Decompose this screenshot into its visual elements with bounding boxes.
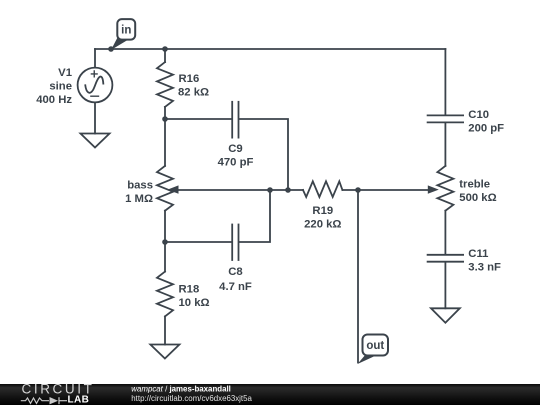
ground (C11) [431, 308, 460, 322]
node C8 riser [267, 187, 273, 193]
ground (V1) [81, 134, 110, 148]
svg-text:R19: R19 [312, 205, 333, 217]
svg-text:R18: R18 [179, 284, 200, 296]
wire bass bottom lead [164, 211, 166, 242]
wire C8 right corner up [239, 190, 270, 242]
wire R16 bottom lead [164, 107, 166, 119]
svg-text:wampcat / james-baxandall: wampcat / james-baxandall [131, 385, 231, 394]
CircuitLab logo zigzag and diode [21, 397, 67, 404]
CircuitLab logo diode triangle [50, 397, 59, 404]
node bass bottom / C8 [162, 239, 168, 245]
voltage source V1 [78, 68, 113, 103]
wire C11 to ground [444, 263, 446, 309]
node in tag junction [108, 46, 114, 52]
svg-text:200 pF: 200 pF [468, 123, 504, 135]
wire R18 top lead [164, 242, 166, 272]
wire C10 to treble [444, 123, 446, 165]
wire top right down to C10 [444, 49, 446, 114]
wire R16 top lead [164, 49, 166, 62]
svg-text:out: out [366, 340, 384, 352]
svg-text:400 Hz: 400 Hz [36, 94, 72, 106]
svg-text:R16: R16 [179, 73, 200, 85]
svg-text:10 kΩ: 10 kΩ [179, 297, 210, 309]
wire node to C9 left [165, 118, 231, 120]
node C9 riser [285, 187, 291, 193]
in flag tail [111, 38, 129, 51]
wire bass wiper to R19 [178, 189, 304, 191]
wire V1 bottom lead [94, 102, 96, 133]
treble wiper arrow [428, 185, 439, 193]
potentiometer treble [437, 166, 453, 211]
svg-text:500 kΩ: 500 kΩ [459, 192, 496, 204]
svg-text:http://circuitlab.com/cv6dxe63: http://circuitlab.com/cv6dxe63xjt5a [131, 394, 252, 403]
wire C9 right to corner down [239, 119, 288, 190]
wire R19 right to treble arrow [342, 189, 428, 191]
resistor R19 [303, 181, 342, 197]
wire node to C8 left [165, 241, 231, 243]
svg-text:82 kΩ: 82 kΩ [178, 87, 209, 99]
node R16 top [162, 46, 168, 52]
svg-text:LAB: LAB [68, 394, 90, 405]
capacitor C8 [232, 225, 238, 261]
wire R18 bottom lead [164, 316, 166, 344]
svg-text:470 pF: 470 pF [218, 157, 254, 169]
svg-text:220 kΩ: 220 kΩ [304, 219, 341, 231]
wire V1 top lead [94, 49, 96, 68]
capacitor C9 [232, 102, 238, 138]
svg-text:bass: bass [127, 179, 153, 191]
svg-text:in: in [121, 25, 131, 37]
potentiometer bass [157, 166, 173, 211]
ground (R18) [150, 345, 179, 359]
svg-text:3.3 nF: 3.3 nF [468, 262, 501, 274]
footer bar [0, 381, 540, 405]
svg-text:1 MΩ: 1 MΩ [125, 193, 153, 205]
wire bass top lead [164, 119, 166, 166]
svg-text:V1: V1 [58, 67, 72, 79]
resistor R16 [157, 62, 173, 107]
svg-text:C10: C10 [468, 109, 489, 121]
svg-text:treble: treble [459, 179, 490, 191]
capacitor C10 [428, 115, 464, 122]
wire treble to C11 [444, 211, 446, 254]
svg-text:4.7 nF: 4.7 nF [219, 281, 252, 293]
resistor R18 [157, 272, 173, 317]
node out junction [355, 187, 361, 193]
out flag box [363, 335, 389, 356]
out flag tail [358, 354, 378, 364]
svg-text:C11: C11 [468, 248, 488, 260]
node R16 bottom / C9 [162, 116, 168, 122]
svg-text:C9: C9 [228, 143, 242, 155]
bass wiper arrow [168, 185, 179, 193]
wire top rail [95, 48, 445, 50]
wire out node down [357, 190, 359, 363]
svg-text:C8: C8 [228, 266, 242, 278]
svg-text:sine: sine [49, 81, 72, 93]
capacitor C11 [428, 255, 464, 262]
in flag box [117, 19, 135, 39]
